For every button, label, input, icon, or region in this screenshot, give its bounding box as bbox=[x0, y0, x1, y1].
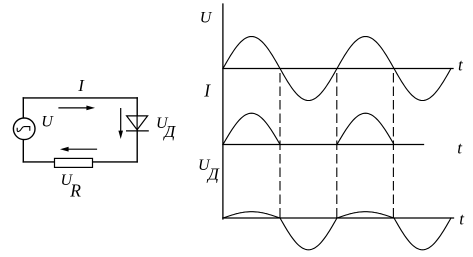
axis t bottom (abscissa of U_D plot) bbox=[223, 217, 454, 219]
curve U (source voltage sine wave) bbox=[223, 37, 451, 101]
wire left (circuit loop left side) bbox=[22, 98, 24, 162]
dashed line 2 (period marker at t=T) bbox=[336, 74, 338, 218]
svg-text:U: U bbox=[41, 113, 54, 130]
svg-text:Д: Д bbox=[162, 122, 176, 141]
label U_D (bottom plot ordinate) bbox=[198, 157, 220, 184]
label U_R (resistor voltage) bbox=[61, 172, 82, 200]
diode VD (cathode down, inline on right wire) bbox=[127, 116, 149, 131]
wire top (circuit loop top side) bbox=[23, 97, 137, 99]
svg-text:U: U bbox=[200, 9, 213, 26]
svg-text:t: t bbox=[457, 138, 463, 157]
curve I hump 2 (rectified current, second half-wave) bbox=[337, 113, 394, 144]
svg-text:t: t bbox=[459, 210, 465, 229]
axis t top (abscissa of U plot) bbox=[223, 68, 453, 70]
arrow U_R (resistor voltage direction, leftward) bbox=[60, 147, 97, 152]
resistor R (load, inline on bottom wire) bbox=[55, 158, 93, 167]
svg-text:Д: Д bbox=[206, 164, 220, 183]
svg-text:I: I bbox=[203, 81, 211, 101]
svg-text:t: t bbox=[458, 56, 464, 75]
curve U_D (diode voltage waveform) bbox=[223, 212, 451, 250]
axis t middle (abscissa of I plot) bbox=[223, 144, 424, 146]
label U_D (diode voltage) bbox=[156, 115, 176, 141]
dashed line 3 (marker at t=3T/2) bbox=[392, 74, 394, 218]
dashed line 1 (half-period marker at t=T/2) bbox=[279, 74, 281, 218]
curve I hump 1 (rectified current, first half-wave) bbox=[223, 113, 280, 144]
axis vertical (shared ordinate of the three plots) bbox=[222, 4, 224, 219]
wire right (circuit loop right side) bbox=[136, 98, 138, 162]
wire bottom (circuit loop bottom side) bbox=[23, 161, 137, 163]
arrow U_D (diode voltage direction, downward) bbox=[118, 109, 123, 139]
svg-text:R: R bbox=[69, 180, 81, 200]
svg-text:I: I bbox=[77, 76, 85, 95]
arrow I (current direction, rightward) bbox=[59, 106, 95, 111]
ac source G1 (sine generator circle) bbox=[13, 118, 35, 140]
